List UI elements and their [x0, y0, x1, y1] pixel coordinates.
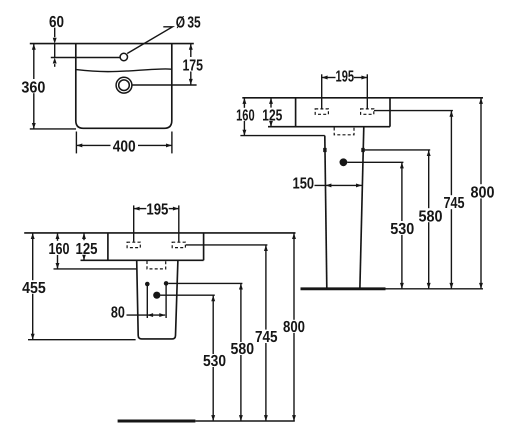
svg-text:175: 175 [182, 57, 203, 74]
dim 580 (view 3) anchor line [168, 282, 242, 284]
dim 125 (view 3) label [75, 240, 98, 255]
view 3: basin top edge with extensions (455 dim to 800 dim) [24, 232, 295, 234]
svg-text:580: 580 [419, 208, 443, 225]
dim 800 (view 2) dimension line [480, 98, 482, 289]
view 3: left fixing pin stem [146, 284, 148, 318]
view 2: pedestal right fixing tick [361, 148, 364, 152]
dim 745 (view 2) dimension line [450, 111, 452, 289]
view 2: pedestal left edge [325, 136, 327, 288]
view 2: floor line (thick) [301, 287, 386, 290]
view 2: pedestal left fixing tick [323, 148, 326, 152]
dim 455 label [21, 280, 46, 294]
dim 195 (view 3) extension lines [133, 205, 135, 241]
dim 80 dimension line [127, 314, 166, 316]
dim 195 (view 2) dimension line [322, 77, 336, 79]
view 1: basin inner rim curve [76, 69, 171, 72]
svg-text:60: 60 [49, 14, 64, 31]
dim 160 (view 3) bottom extension line [54, 268, 137, 270]
dim 580 (view 2) dimension line [428, 150, 430, 289]
dim 530 (view 3) anchor line [160, 294, 215, 296]
dim 160 (view 2) label [236, 108, 255, 121]
dim 160 (view 3) dimension line [57, 233, 59, 269]
svg-text:580: 580 [231, 341, 255, 358]
view 3: floor extension line [195, 420, 294, 422]
svg-text:150: 150 [293, 175, 315, 192]
svg-text:360: 360 [21, 79, 45, 96]
view 1: overflow centre extension line [132, 84, 197, 86]
svg-text:745: 745 [255, 329, 278, 346]
view 1: overflow inner circle [119, 80, 130, 91]
view 2: basin left edge [295, 98, 297, 127]
svg-text:195: 195 [336, 68, 355, 85]
dim 530 (view 3) label [202, 354, 227, 367]
view 1: tap hole centre line [51, 57, 120, 59]
dim 530 (view 2) dimension line [401, 162, 403, 288]
svg-text:530: 530 [390, 221, 414, 238]
svg-text:195: 195 [146, 202, 168, 219]
view 2: basin bottom edge with left extension [268, 126, 390, 128]
dim 530 (view 2) label [390, 221, 415, 235]
view 3: right fixing pin stem [165, 283, 167, 318]
view 3: trap outline (dashed) [147, 261, 166, 269]
view 3: semi-pedestal outline [137, 260, 178, 339]
dim 400 label [111, 138, 139, 152]
svg-text:455: 455 [22, 280, 46, 297]
svg-text:160: 160 [49, 241, 70, 258]
dim 455 dimension line [32, 233, 34, 340]
svg-text:80: 80 [111, 304, 125, 321]
view 3: basin right edge [203, 233, 205, 260]
svg-text:400: 400 [113, 138, 136, 155]
svg-text:530: 530 [203, 353, 226, 370]
svg-text:Ø 35: Ø 35 [176, 14, 201, 31]
view 2: basin right edge [389, 98, 391, 127]
view 2: left fixing hole (dashed) [315, 109, 328, 114]
view 1: basin top edge with extension lines [30, 43, 194, 45]
dim 530 (view 3) dimension line [212, 295, 214, 421]
view 1: basin front outline [76, 44, 172, 129]
dim 530 (view 2) anchor line [347, 161, 403, 163]
dim 360 dimension line [33, 44, 35, 129]
view 3: basin bottom edge with left extension [81, 259, 204, 261]
dim 745 (view 3) dimension line [265, 245, 267, 421]
svg-text:125: 125 [76, 241, 98, 258]
dim 580 (view 3) label [230, 342, 255, 355]
view 2: basin top edge with extensions to 800 dim [242, 97, 483, 99]
svg-text:800: 800 [471, 184, 495, 201]
dim 360 bottom extension line [30, 128, 76, 130]
dim 160 (view 3) label [47, 241, 71, 255]
dim 580 (view 2) anchor line [365, 149, 431, 151]
dim 800 (view 3) dimension line [293, 233, 295, 421]
view 2: floor extension line [386, 288, 484, 290]
dim 800 (view 2) label [470, 184, 495, 198]
dim 360 label [22, 79, 46, 93]
dim 745 (view 3) label [255, 330, 278, 343]
dim 125 (view 2) label [262, 108, 283, 121]
svg-text:160: 160 [236, 108, 255, 125]
dim Ø35 leader line [127, 27, 172, 54]
dim 175 label [182, 57, 202, 72]
dim 160 (view 2) dimension line [243, 98, 245, 136]
view 3: waste outlet dot [153, 292, 160, 299]
view 2: pedestal right edge [360, 127, 364, 288]
dim 745 (view 2) anchor line [374, 110, 453, 112]
view 1: overflow outer circle [116, 77, 132, 93]
view 3: floor line (thick) [118, 420, 196, 423]
dim 60 dimension line [54, 28, 56, 38]
view 2: right fixing hole (dashed) [361, 109, 374, 114]
view 1: tap hole circle [120, 53, 127, 60]
dim 745 (view 2) label [443, 195, 465, 209]
dim 150 dimension line [315, 184, 363, 186]
view 3: left fixing hole (dashed) [127, 242, 140, 247]
dim 580 (view 3) dimension line [240, 283, 242, 421]
view 2: trap outline (dashed) [334, 128, 354, 135]
svg-text:745: 745 [444, 195, 465, 212]
dim 125 (view 2) dimension line [270, 98, 272, 127]
svg-text:800: 800 [283, 319, 305, 336]
view 2: waste outlet dot [340, 158, 348, 166]
dim 195 (view 3) dimension line [134, 208, 147, 210]
dim 800 (view 3) label [282, 320, 306, 333]
dim 160 (view 2) bottom extension line [240, 135, 324, 137]
dim 175 dimension line [190, 44, 192, 85]
dim 195 (view 2) extension lines [321, 74, 323, 108]
dim 455 bottom extension line [28, 339, 136, 341]
view 3: basin left edge [107, 233, 109, 260]
view 3: left fixing pin dot [145, 282, 150, 287]
svg-text:125: 125 [262, 107, 282, 124]
dim 745 (view 3) anchor line [186, 244, 267, 246]
view 3: right fixing hole (dashed) [172, 242, 185, 247]
dim 400 extension lines [75, 132, 77, 154]
dim 580 (view 2) label [418, 208, 443, 222]
dim 400 dimension line [76, 144, 171, 146]
view 3: right fixing pin dot [164, 281, 169, 286]
dim 125 (view 3) dimension line [83, 233, 85, 260]
